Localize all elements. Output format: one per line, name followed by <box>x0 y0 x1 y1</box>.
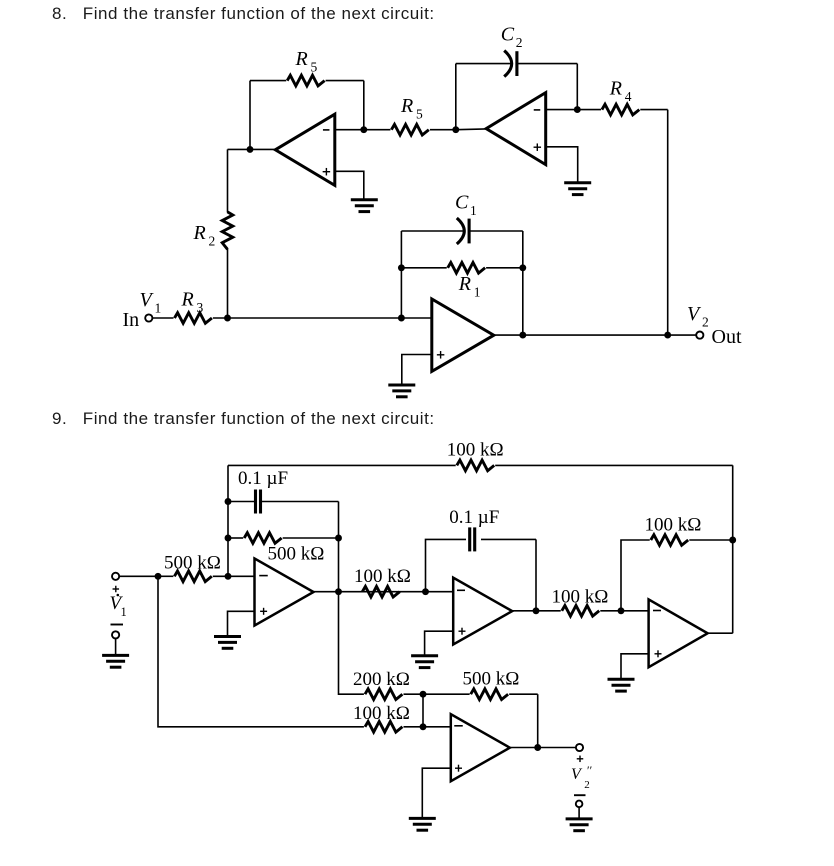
svg-text:R: R <box>295 48 308 70</box>
svg-text:0.1 µF: 0.1 µF <box>238 468 288 489</box>
svg-text:V: V <box>687 303 702 325</box>
svg-text:R: R <box>458 273 471 295</box>
svg-text:In: In <box>123 309 140 331</box>
svg-text:3: 3 <box>197 300 204 315</box>
svg-text:0.1 µF: 0.1 µF <box>449 507 499 528</box>
svg-text:100 kΩ: 100 kΩ <box>353 703 410 724</box>
svg-text:1: 1 <box>470 203 477 218</box>
svg-text:200 kΩ: 200 kΩ <box>353 669 410 690</box>
svg-text:′′: ′′ <box>586 763 592 777</box>
svg-text:2: 2 <box>209 234 216 249</box>
svg-text:2: 2 <box>516 35 523 50</box>
svg-text:V: V <box>571 766 583 783</box>
svg-text:Out: Out <box>712 326 742 348</box>
svg-text:4: 4 <box>625 89 632 104</box>
svg-text:1: 1 <box>155 301 162 316</box>
svg-text:100 kΩ: 100 kΩ <box>354 566 411 587</box>
svg-text:R: R <box>193 222 206 244</box>
svg-text:V: V <box>140 289 155 311</box>
svg-text:R: R <box>609 78 622 100</box>
svg-text:100 kΩ: 100 kΩ <box>552 587 609 608</box>
svg-text:C: C <box>501 24 515 46</box>
svg-text:2: 2 <box>702 315 709 330</box>
svg-text:R: R <box>181 289 194 311</box>
svg-text:5: 5 <box>311 59 318 74</box>
svg-text:1: 1 <box>474 285 481 300</box>
svg-text:100 kΩ: 100 kΩ <box>447 440 504 461</box>
svg-text:100 kΩ: 100 kΩ <box>645 515 702 536</box>
svg-text:500 kΩ: 500 kΩ <box>463 669 520 690</box>
svg-text:R: R <box>400 95 413 117</box>
svg-text:1: 1 <box>121 605 127 619</box>
svg-text:C: C <box>455 191 469 213</box>
svg-text:2: 2 <box>584 779 590 791</box>
svg-text:500 kΩ: 500 kΩ <box>268 544 325 565</box>
svg-text:5: 5 <box>416 106 423 121</box>
svg-text:500 kΩ: 500 kΩ <box>164 553 221 574</box>
